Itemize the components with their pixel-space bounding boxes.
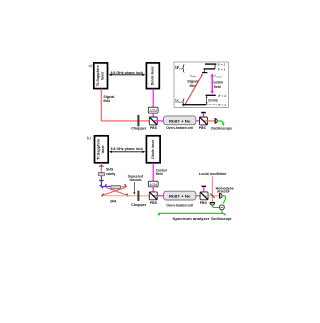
squeezed vacuum label — [128, 174, 144, 182]
OPA mirror TL — [105, 184, 107, 187]
virtual level — [202, 72, 207, 74]
svg-text:Local oscillator: Local oscillator — [199, 172, 227, 176]
squeezed beam to PBS (salmon) — [128, 195, 154, 197]
SHG mirror bottom — [99, 179, 103, 182]
PBS A — [149, 117, 157, 125]
SHG mirror top — [99, 165, 103, 168]
svg-text:Chopper: Chopper — [131, 203, 147, 207]
svg-text:Ti:Sapphire: Ti:Sapphire — [97, 139, 101, 160]
svg-text:Signal: Signal — [187, 79, 198, 83]
laser Diode A — [146, 63, 159, 89]
homodyne detector label — [216, 186, 234, 193]
blue beam down from SHG — [100, 182, 102, 187]
svg-text:PBS: PBS — [150, 201, 158, 205]
level F=2 excited — [205, 63, 216, 65]
wire right PD to subtractor (green) — [222, 196, 225, 203]
PBS2 A — [200, 117, 208, 125]
svg-text:Control: Control — [212, 80, 224, 84]
svg-text:{: { — [181, 97, 186, 108]
AOM A — [148, 107, 158, 113]
chopper B — [137, 191, 139, 201]
splitting tick excited — [214, 64, 216, 69]
pump beam B (red to SHG) — [100, 163, 102, 173]
50/50 beamsplitter — [210, 194, 215, 199]
svg-text:PBS: PBS — [199, 126, 207, 130]
beam dump B — [202, 186, 207, 196]
beam PBS to cell B (magenta) — [153, 195, 164, 197]
photodiode A — [215, 118, 217, 123]
svg-text:cavity: cavity — [106, 172, 116, 176]
OPA mirror TR — [125, 184, 127, 187]
control transition arrow (magenta vertical) — [211, 73, 214, 94]
svg-text:6.8 GHz phase lock: 6.8 GHz phase lock — [111, 147, 143, 151]
svg-text:PBS: PBS — [200, 201, 208, 205]
control beam B upper (magenta) — [152, 163, 154, 181]
svg-text:detector: detector — [217, 189, 231, 193]
Rb cell A — [164, 116, 196, 125]
svg-text:6.8 GHz: 6.8 GHz — [208, 98, 218, 102]
wire to oscilloscope B (green) — [222, 213, 226, 216]
svg-text:laser: laser — [101, 145, 105, 154]
signal transition arrow (red diagonal) — [185, 74, 203, 105]
svg-text:Ti:Sapphire: Ti:Sapphire — [96, 65, 100, 86]
svg-text:AOM: AOM — [149, 109, 157, 113]
control beam A lower (magenta) — [152, 113, 154, 121]
beam cell to PBS2 B (magenta) — [196, 195, 204, 197]
svg-text:Oscilloscope: Oscilloscope — [211, 217, 232, 221]
OPA mirror BL — [102, 194, 104, 197]
SHG label — [106, 167, 116, 175]
svg-text:F = 1: F = 1 — [218, 103, 226, 107]
local oscillator beam (salmon vertical) — [211, 176, 213, 202]
svg-text:{: { — [181, 63, 186, 74]
svg-text:Chopper: Chopper — [131, 126, 147, 130]
wire bottom PD to subtractor (green) — [212, 205, 219, 207]
beam PBS to cell A (magenta) — [153, 120, 164, 122]
OPA mirror BR — [127, 194, 129, 197]
PBS2 B — [200, 192, 208, 200]
signal beam PBS2 to BS/PD (salmon) — [204, 195, 220, 197]
svg-text:AOM: AOM — [149, 183, 157, 187]
svg-text:Diode laser: Diode laser — [151, 66, 155, 86]
phase lock arrow A — [109, 71, 146, 76]
splitting double arrow ground — [206, 96, 208, 105]
laser Diode B — [146, 136, 160, 163]
signal field label A — [103, 95, 114, 103]
photodiode right — [220, 193, 223, 198]
svg-text:Oscilloscope: Oscilloscope — [211, 126, 232, 130]
svg-text:Rb87 + Ne: Rb87 + Ne — [169, 119, 191, 123]
wire to spectrum analyzer (green) — [158, 213, 222, 216]
laser TiSapph B — [95, 136, 109, 163]
svg-text:OPA: OPA — [110, 199, 117, 203]
svg-text:laser: laser — [101, 71, 105, 80]
svg-text:SHG: SHG — [106, 167, 114, 171]
svg-text:vacuum: vacuum — [129, 178, 141, 182]
beam PBS2 to PD A (red) — [203, 120, 215, 122]
wire PD A to scope (green) — [218, 121, 225, 126]
beam cell to PBS2 A (magenta) — [196, 120, 204, 122]
subtractor node — [220, 205, 225, 210]
chopper A — [137, 115, 139, 126]
AOM B — [148, 181, 158, 187]
level F=1 excited — [204, 68, 216, 70]
steering mirror corner — [100, 185, 103, 188]
control beam B lower (magenta) — [152, 187, 154, 196]
svg-text:F = 2: F = 2 — [218, 94, 226, 98]
phase lock arrow B — [109, 147, 145, 153]
level F=2 ground — [206, 94, 216, 96]
control beam A upper (magenta) — [152, 89, 154, 108]
control field label (diagram) — [212, 80, 224, 88]
OPA top beam (red) — [119, 186, 126, 188]
svg-text:F = 2: F = 2 — [218, 62, 226, 66]
photodiode bottom — [210, 203, 215, 205]
PBS B — [149, 192, 157, 200]
beam dump A — [201, 112, 206, 121]
svg-text:Diode laser: Diode laser — [151, 139, 155, 159]
blue beam SHG down — [100, 176, 102, 182]
signal field label (diagram) — [187, 79, 198, 88]
svg-text:Rb87 + Ne: Rb87 + Ne — [169, 195, 191, 199]
svg-text:Spectrum analyzer: Spectrum analyzer — [173, 217, 211, 221]
control field label B — [156, 168, 167, 176]
svg-text:F = 1: F = 1 — [218, 67, 226, 71]
svg-text:Oven-heated cell: Oven-heated cell — [166, 126, 193, 130]
detuning tick — [203, 69, 205, 72]
Rb cell B — [164, 191, 196, 200]
blue beam into OPA — [101, 185, 112, 187]
svg-text:b): b) — [87, 135, 91, 140]
svg-text:PBS: PBS — [150, 126, 158, 130]
svg-text:6.8 GHz phase lock: 6.8 GHz phase lock — [111, 71, 143, 75]
squeezed vacuum pointer arrow — [133, 182, 135, 195]
OPA crystal — [111, 185, 121, 189]
energy level diagram box — [174, 62, 229, 108]
svg-text:field: field — [214, 85, 221, 89]
OPA diagonal beams (red) — [106, 187, 127, 195]
svg-text:a): a) — [89, 63, 93, 68]
svg-text:field: field — [156, 172, 163, 176]
svg-text:Oven-heated cell: Oven-heated cell — [166, 203, 193, 207]
laser TiSapph A — [94, 63, 108, 89]
SHG crystal — [98, 172, 104, 175]
signal beam A (red) — [101, 89, 153, 121]
wire subtractor down (green) — [221, 210, 223, 214]
svg-text:field: field — [103, 99, 110, 103]
PBS diagonals overdraw — [150, 118, 208, 200]
level F=1 ground — [182, 104, 206, 106]
OPA bottom beam (salmon) — [102, 195, 127, 197]
